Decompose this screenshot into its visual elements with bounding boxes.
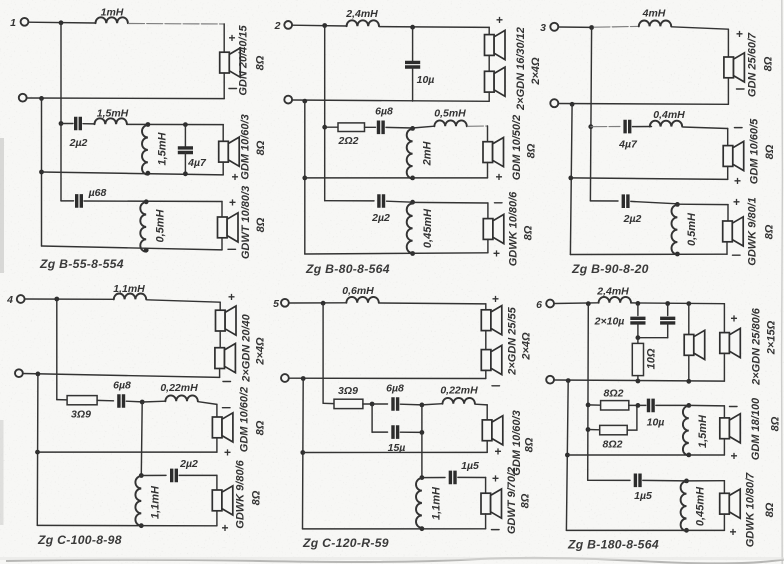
speaker GDM 18/100	[720, 414, 741, 443]
terminal − input (circuit 1)	[19, 94, 27, 102]
wire to resistor R1	[588, 404, 601, 406]
svg-text:µ68: µ68	[88, 187, 107, 199]
junction cap1 top	[636, 301, 641, 306]
junction woofer shunt top	[684, 479, 689, 484]
capacitor 4µ7 shunt	[178, 148, 193, 153]
wire split to cap 15µ	[372, 431, 387, 433]
svg-text:GDN 25/60/7: GDN 25/60/7	[747, 32, 759, 97]
scan smear left edge lower	[0, 420, 4, 525]
speaker GDWK 10/80/7	[720, 489, 741, 518]
svg-text:0,45mH: 0,45mH	[695, 486, 707, 526]
junction rail coil bottom	[146, 171, 151, 176]
svg-text:5: 5	[273, 298, 279, 310]
svg-text:+: +	[733, 195, 740, 209]
svg-text:8Ω: 8Ω	[255, 55, 267, 70]
svg-text:GDWK 9/80/1: GDWK 9/80/1	[747, 197, 759, 265]
resistor 8Ω2 upper	[601, 401, 629, 410]
svg-text:2×10µ: 2×10µ	[594, 316, 625, 328]
junction resistors join	[636, 403, 641, 408]
wire mid return rail	[571, 178, 728, 180]
wire between pair	[485, 331, 487, 350]
wire minus rail horizontal	[292, 100, 489, 101]
junction woofer branch	[139, 473, 144, 478]
node B3 junction	[570, 102, 575, 107]
speaker 2xGDN 16/30/12 lower	[485, 67, 506, 96]
wire bottom rail	[566, 529, 724, 531]
capacitor µ68	[77, 194, 82, 208]
wire woofer top lead	[221, 202, 223, 218]
svg-text:0,22mH: 0,22mH	[160, 382, 198, 394]
wire minus rail vertical	[41, 98, 43, 246]
junction cap split	[370, 402, 375, 407]
svg-text:0,6mH: 0,6mH	[342, 285, 374, 297]
wire minus rail vertical	[304, 101, 306, 254]
wire down to pair	[485, 304, 487, 310]
svg-text:GDN 20/40/15: GDN 20/40/15	[238, 24, 250, 95]
wire R1 to join	[629, 404, 638, 406]
svg-text:Zg B-90-8-20: Zg B-90-8-20	[571, 262, 649, 276]
svg-text:1,1mH: 1,1mH	[113, 283, 145, 295]
wire feed to resistor	[325, 126, 338, 128]
wire input to coil	[554, 302, 599, 305]
node A6 junction	[586, 301, 591, 306]
wire cap to junction	[643, 479, 687, 482]
node A2 junction	[322, 23, 327, 28]
svg-text:3: 3	[540, 22, 546, 34]
terminal + input (circuit 5)	[281, 299, 289, 307]
wire speaker A top lead	[688, 304, 690, 335]
wire feed vertical to woofer branch	[140, 402, 143, 476]
capacitor 2µ2	[172, 469, 177, 483]
wire woofer bottom lead	[485, 514, 487, 529]
wire feed vertical to woofer branch	[421, 432, 423, 477]
wire mid return rail	[303, 451, 487, 453]
resistor 10Ω vertical	[632, 343, 643, 375]
wire coil to mid speaker	[475, 403, 487, 406]
wire cap to woofer	[84, 200, 222, 203]
node B1 junction	[39, 96, 44, 101]
wire coil to mid speaker	[683, 127, 728, 129]
speaker 2xGDN 20/40 lower	[215, 344, 236, 373]
wire woofer top lead	[727, 205, 729, 221]
inductor 1,5mH series	[95, 118, 127, 124]
wire woofer bottom lead	[723, 514, 725, 530]
wire mid return rail	[38, 451, 217, 453]
svg-text:8Ω: 8Ω	[770, 416, 782, 431]
wire plus feed vertical	[590, 28, 591, 201]
wire feed to cap 4µ7	[591, 126, 620, 128]
wire mid speaker bottom lead	[216, 438, 218, 452]
wire junction to cap 1µ5	[422, 477, 445, 479]
capacitor 2µ2	[76, 117, 81, 131]
inductor 2,4mH	[347, 20, 379, 26]
wire woofer top lead	[485, 478, 487, 494]
speaker 2xGDN 20/40 upper	[216, 306, 237, 335]
junction join upper	[420, 403, 425, 408]
svg-text:0,5mH: 0,5mH	[434, 108, 466, 120]
svg-text:8Ω: 8Ω	[524, 437, 536, 452]
scan shading bottom band	[0, 557, 784, 560]
wire coil to speakers	[380, 26, 490, 29]
svg-text:+: +	[222, 521, 229, 535]
wire between pair	[488, 55, 490, 71]
node A5 junction	[321, 301, 326, 306]
wire minus rail horizontal	[289, 377, 486, 379]
scan border bottom edge	[6, 558, 784, 564]
junction shunt coil 2mH bottom	[410, 176, 415, 181]
svg-text:1,5mH: 1,5mH	[697, 414, 709, 448]
svg-text:2,4mH: 2,4mH	[596, 286, 629, 298]
wire tweeter to minus rail	[727, 78, 729, 105]
svg-text:+: +	[493, 247, 500, 261]
speaker 2xGDN 25/55 lower	[481, 345, 502, 374]
wire input to coil	[25, 298, 114, 300]
wire mid speaker bottom lead	[723, 439, 725, 455]
inductor 0,6mH	[346, 297, 378, 303]
svg-text:0,4mH: 0,4mH	[653, 109, 685, 121]
wire caps join horizontal	[638, 337, 668, 339]
junction caps join	[636, 335, 641, 340]
wire plus feed vertical	[322, 303, 324, 403]
capacitor 15µ	[393, 425, 398, 439]
wire R2 right and up	[627, 405, 637, 430]
junction join lower	[420, 430, 425, 435]
shunt inductor 1,1mH	[135, 476, 141, 526]
terminal + input (circuit 2)	[284, 21, 292, 29]
svg-text:2,4mH: 2,4mH	[345, 8, 378, 20]
terminal + input (circuit 6)	[546, 300, 554, 308]
speaker GDM 10/60/5	[723, 141, 744, 170]
svg-text:3Ω9: 3Ω9	[71, 409, 91, 421]
wire minus rail horizontal	[554, 380, 724, 381]
shunt inductor 1,5mH	[683, 406, 689, 456]
svg-text:1,5mH: 1,5mH	[157, 131, 169, 165]
wire feed to cap 1µ5	[588, 479, 630, 481]
speaker GDM 10/60/2	[212, 413, 233, 442]
capacitor 4µ7	[625, 120, 630, 134]
svg-text:2×GDN 25/80/6: 2×GDN 25/80/6	[751, 307, 763, 386]
wire mid speaker top lead	[727, 129, 729, 146]
svg-text:GDWT 9/70/2: GDWT 9/70/2	[506, 467, 518, 534]
svg-text:10Ω: 10Ω	[646, 348, 658, 369]
wire coil to mid speaker	[127, 123, 223, 125]
junction shunt cap top	[183, 122, 188, 127]
wire down to speaker B	[723, 304, 725, 333]
inductor 0,22mH	[165, 395, 197, 401]
svg-text:GDWK 10/80/7: GDWK 10/80/7	[745, 472, 757, 547]
svg-text:6µ8: 6µ8	[113, 380, 131, 392]
terminal − input (circuit 3)	[550, 99, 558, 107]
svg-text:8Ω: 8Ω	[255, 217, 267, 232]
inductor 4mH	[639, 21, 671, 27]
scan smear left edge upper	[0, 138, 4, 273]
node B6 junction	[566, 378, 571, 383]
minus sign mid top	[735, 127, 743, 129]
svg-text:1,1mH: 1,1mH	[150, 485, 162, 519]
wire resistor to cap	[365, 126, 376, 128]
svg-text:4: 4	[6, 294, 13, 306]
wire between pair	[219, 331, 221, 348]
capacitor 10µ second	[660, 318, 675, 323]
capacitor 6µ8	[119, 394, 124, 408]
speaker GDN 20/40/15	[220, 48, 241, 77]
node B2 junction	[302, 99, 307, 104]
junction resistor bottom	[636, 379, 641, 384]
wire cap2 upper lead	[667, 304, 669, 316]
wire junction to coil dashed	[594, 25, 639, 28]
wire to resistor R2	[588, 429, 600, 431]
wire minus rail vertical	[566, 381, 568, 531]
junction resistor R1 feed	[586, 403, 591, 408]
wire coil to speaker pair	[147, 300, 220, 302]
resistor 2Ω2	[338, 123, 365, 132]
junction speaker A bottom	[686, 379, 691, 384]
svg-text:1µ5: 1µ5	[634, 490, 652, 502]
wire cap 15µ to join	[400, 431, 422, 433]
svg-text:+: +	[730, 525, 737, 539]
wire woofer bottom lead	[487, 239, 489, 252]
svg-text:8Ω: 8Ω	[255, 140, 267, 155]
svg-text:2×GDN 20/40: 2×GDN 20/40	[241, 313, 253, 382]
junction shunt coil 2mH top	[410, 126, 415, 131]
speaker GDM 10/60/3	[219, 137, 240, 166]
capacitor 10µ first	[630, 318, 645, 323]
wire cap1 upper lead	[637, 303, 639, 315]
shunt inductor 0,5mH	[672, 205, 678, 255]
terminal + input (circuit 1)	[21, 18, 29, 26]
wire mid speaker bottom lead	[222, 162, 224, 175]
wire down to tweeter plus	[223, 24, 225, 52]
junction cap2 top	[665, 301, 670, 306]
wire woofer top lead	[487, 203, 489, 219]
svg-text:4µ7: 4µ7	[618, 139, 638, 151]
svg-text:1µ5: 1µ5	[461, 460, 479, 472]
svg-text:8Ω: 8Ω	[520, 493, 532, 508]
svg-text:+: +	[492, 472, 499, 486]
resistor 3Ω9	[67, 396, 97, 405]
wire feed to resistor	[323, 402, 334, 404]
svg-text:GDM 10/60/5: GDM 10/60/5	[749, 118, 761, 184]
wire junction to woofer	[677, 203, 728, 205]
junction mid rail left	[568, 176, 573, 181]
svg-text:8Ω2: 8Ω2	[604, 388, 624, 400]
junction woofer shunt top	[410, 200, 415, 205]
node A3 junction	[589, 25, 594, 30]
svg-text:8Ω: 8Ω	[764, 144, 776, 159]
wire minus rail vertical	[570, 104, 572, 254]
junction mid branch feed	[322, 125, 327, 130]
wire input to coil (faint)	[558, 26, 591, 28]
svg-text:6µ8: 6µ8	[375, 106, 393, 118]
svg-text:Zg B-180-8-564: Zg B-180-8-564	[567, 538, 659, 552]
wire feed to cap µ68	[61, 200, 74, 202]
capacitor 2µ2 low	[379, 194, 384, 208]
wire plus feed vertical	[587, 304, 590, 481]
svg-text:Zg C-100-8-98: Zg C-100-8-98	[37, 533, 122, 547]
wire split down	[371, 404, 373, 432]
junction rail cap bottom	[183, 171, 188, 176]
svg-text:4µ7: 4µ7	[187, 157, 207, 169]
capacitor 1µ5	[450, 471, 455, 485]
minus sign woofer top	[495, 202, 503, 204]
speaker pair right 2xGDN 25/80/6	[720, 328, 741, 357]
wire speaker A bottom lead	[688, 355, 690, 381]
minus sign tweeter	[737, 88, 745, 90]
wire cap to junction	[386, 126, 413, 129]
svg-text:GDM 10/60/3: GDM 10/60/3	[511, 410, 523, 475]
svg-text:1,1mH: 1,1mH	[431, 486, 443, 520]
svg-text:+: +	[736, 27, 743, 41]
wire woofer bottom lead	[726, 242, 728, 254]
wire cap to junction	[656, 404, 689, 406]
wire cap to junction	[387, 201, 413, 202]
wire feed to cap 2µ2	[325, 200, 374, 202]
wire cap to junction	[126, 400, 142, 403]
capacitor 6µ8	[393, 397, 398, 411]
svg-text:GDWT 10/80/3: GDWT 10/80/3	[240, 186, 252, 259]
terminal − input (circuit 6)	[546, 376, 554, 384]
wire cap to coil	[633, 126, 652, 128]
speaker 2xGDN 16/30/12 upper	[485, 30, 506, 59]
svg-text:+: +	[224, 446, 231, 460]
wire cap1 lower lead	[637, 323, 639, 338]
wire mid speaker top lead	[487, 126, 489, 142]
wire resistor to split	[363, 403, 372, 405]
junction woofer shunt bottom	[144, 248, 149, 253]
wire mid speaker top lead	[222, 125, 224, 142]
svg-text:GDM 10/60/2: GDM 10/60/2	[239, 387, 251, 452]
wire cap to woofer	[179, 474, 217, 476]
speaker GDM 10/50/2	[483, 138, 504, 167]
svg-text:+: +	[229, 31, 236, 45]
wire join to resistor	[637, 338, 639, 344]
junction woofer shunt top	[144, 199, 149, 204]
svg-text:Zg C-120-R-59: Zg C-120-R-59	[302, 536, 389, 550]
wire mid speaker top lead	[723, 406, 725, 418]
junction mid rail left	[300, 450, 305, 455]
svg-text:2Ω2: 2Ω2	[338, 135, 359, 147]
wire join vertical	[421, 405, 423, 433]
svg-text:2µ2: 2µ2	[623, 213, 642, 225]
svg-text:+: +	[496, 13, 503, 27]
wire feed to cap 2µ2	[61, 123, 73, 125]
svg-text:8Ω: 8Ω	[255, 420, 267, 435]
inductor 0,5mH	[434, 120, 466, 126]
wire resistor to minus rail	[637, 376, 639, 382]
minus sign woofer	[228, 248, 236, 250]
svg-text:+: +	[492, 292, 499, 306]
wire mid speaker bottom lead	[486, 441, 488, 453]
speaker GDWT 9/70/2	[481, 489, 502, 518]
junction woofer shunt bottom	[139, 523, 144, 528]
speaker GDWT 10/80/3	[218, 213, 239, 242]
wire cap to coil	[83, 123, 94, 125]
wire cap 10µ upper lead	[412, 27, 414, 62]
svg-text:2×15Ω: 2×15Ω	[766, 320, 778, 355]
svg-text:8Ω: 8Ω	[526, 143, 538, 158]
svg-text:+: +	[496, 170, 503, 184]
node A4 junction	[54, 297, 59, 302]
wire bottom rail	[570, 253, 727, 255]
wire speaker B bottom lead	[723, 353, 725, 381]
junction mid branch feed	[59, 121, 64, 126]
node A1 junction	[59, 20, 64, 25]
capacitor 10µ	[405, 62, 420, 67]
svg-text:8Ω: 8Ω	[523, 225, 535, 240]
wire pair to minus rail	[219, 369, 221, 378]
minus sign woofer	[492, 529, 500, 531]
svg-text:2×4Ω: 2×4Ω	[530, 57, 542, 86]
svg-text:2×GDN 25/55: 2×GDN 25/55	[507, 306, 519, 375]
junction shunt coil bottom	[686, 453, 691, 458]
svg-text:0,5mH: 0,5mH	[155, 208, 167, 242]
svg-text:0,22mH: 0,22mH	[440, 385, 478, 397]
junction shunt coil top	[686, 403, 691, 408]
terminal + input (circuit 3)	[550, 23, 558, 31]
svg-text:+: +	[229, 196, 236, 210]
wire mid return rail	[305, 177, 488, 179]
junction mid rail left	[39, 170, 44, 175]
wire minus rail horizontal	[23, 374, 220, 378]
svg-text:Zg B-80-8-564: Zg B-80-8-564	[305, 262, 390, 276]
speaker 2xGDN 25/55 upper	[481, 306, 502, 335]
minus sign woofer	[733, 254, 741, 256]
svg-text:+: +	[232, 170, 239, 184]
svg-text:1mH: 1mH	[101, 7, 124, 19]
svg-text:GDM 10/60/3: GDM 10/60/3	[240, 114, 252, 179]
wire pair to minus rail	[485, 370, 487, 378]
shunt inductor 0,5mH	[140, 202, 146, 252]
svg-text:+: +	[228, 290, 235, 304]
svg-text:+: +	[731, 312, 738, 326]
svg-text:+: +	[731, 449, 738, 463]
svg-text:8Ω: 8Ω	[763, 56, 775, 71]
wire mid speaker bottom lead	[727, 166, 729, 179]
wire junction to woofer	[413, 201, 488, 204]
shunt inductor 0,45mH	[681, 481, 687, 531]
wire plus feed vertical	[324, 26, 326, 201]
wire down to speaker pair	[488, 27, 490, 34]
wire input to coil	[289, 302, 346, 304]
wire cap 6µ8 to join	[400, 403, 422, 406]
svg-text:2µ2: 2µ2	[179, 458, 198, 470]
wire coil to speaker pair	[380, 302, 486, 305]
wire resistor to cap	[97, 399, 113, 401]
junction shunt cap 10µ	[410, 25, 415, 30]
wire mid speaker top lead	[486, 405, 488, 420]
wire coil to tweeter	[672, 27, 729, 29]
junction shunt coil top	[146, 122, 151, 127]
wire junction to coil 0,5mH	[413, 126, 435, 128]
wire cap 4µ7 upper lead	[184, 125, 186, 148]
junction mid rail left	[302, 176, 307, 181]
junction mid rail left	[35, 450, 40, 455]
speaker GDWK 9/80/1	[723, 217, 744, 246]
junction woofer shunt bottom	[684, 528, 689, 533]
svg-text:2×4Ω: 2×4Ω	[521, 332, 533, 361]
capacitor 2µ2	[623, 194, 628, 208]
wire feed to cap 2µ2	[590, 200, 618, 202]
junction resistor R2 feed	[586, 427, 591, 432]
wire input to coil	[292, 24, 346, 27]
resistor 8Ω2 lower	[600, 425, 628, 434]
wire woofer top lead	[216, 475, 218, 490]
junction woofer shunt top	[675, 202, 680, 207]
wire mid return rail	[42, 172, 224, 175]
wire woofer top lead	[723, 481, 725, 494]
svg-text:1: 1	[10, 17, 16, 29]
wire junction to woofer	[687, 480, 725, 482]
